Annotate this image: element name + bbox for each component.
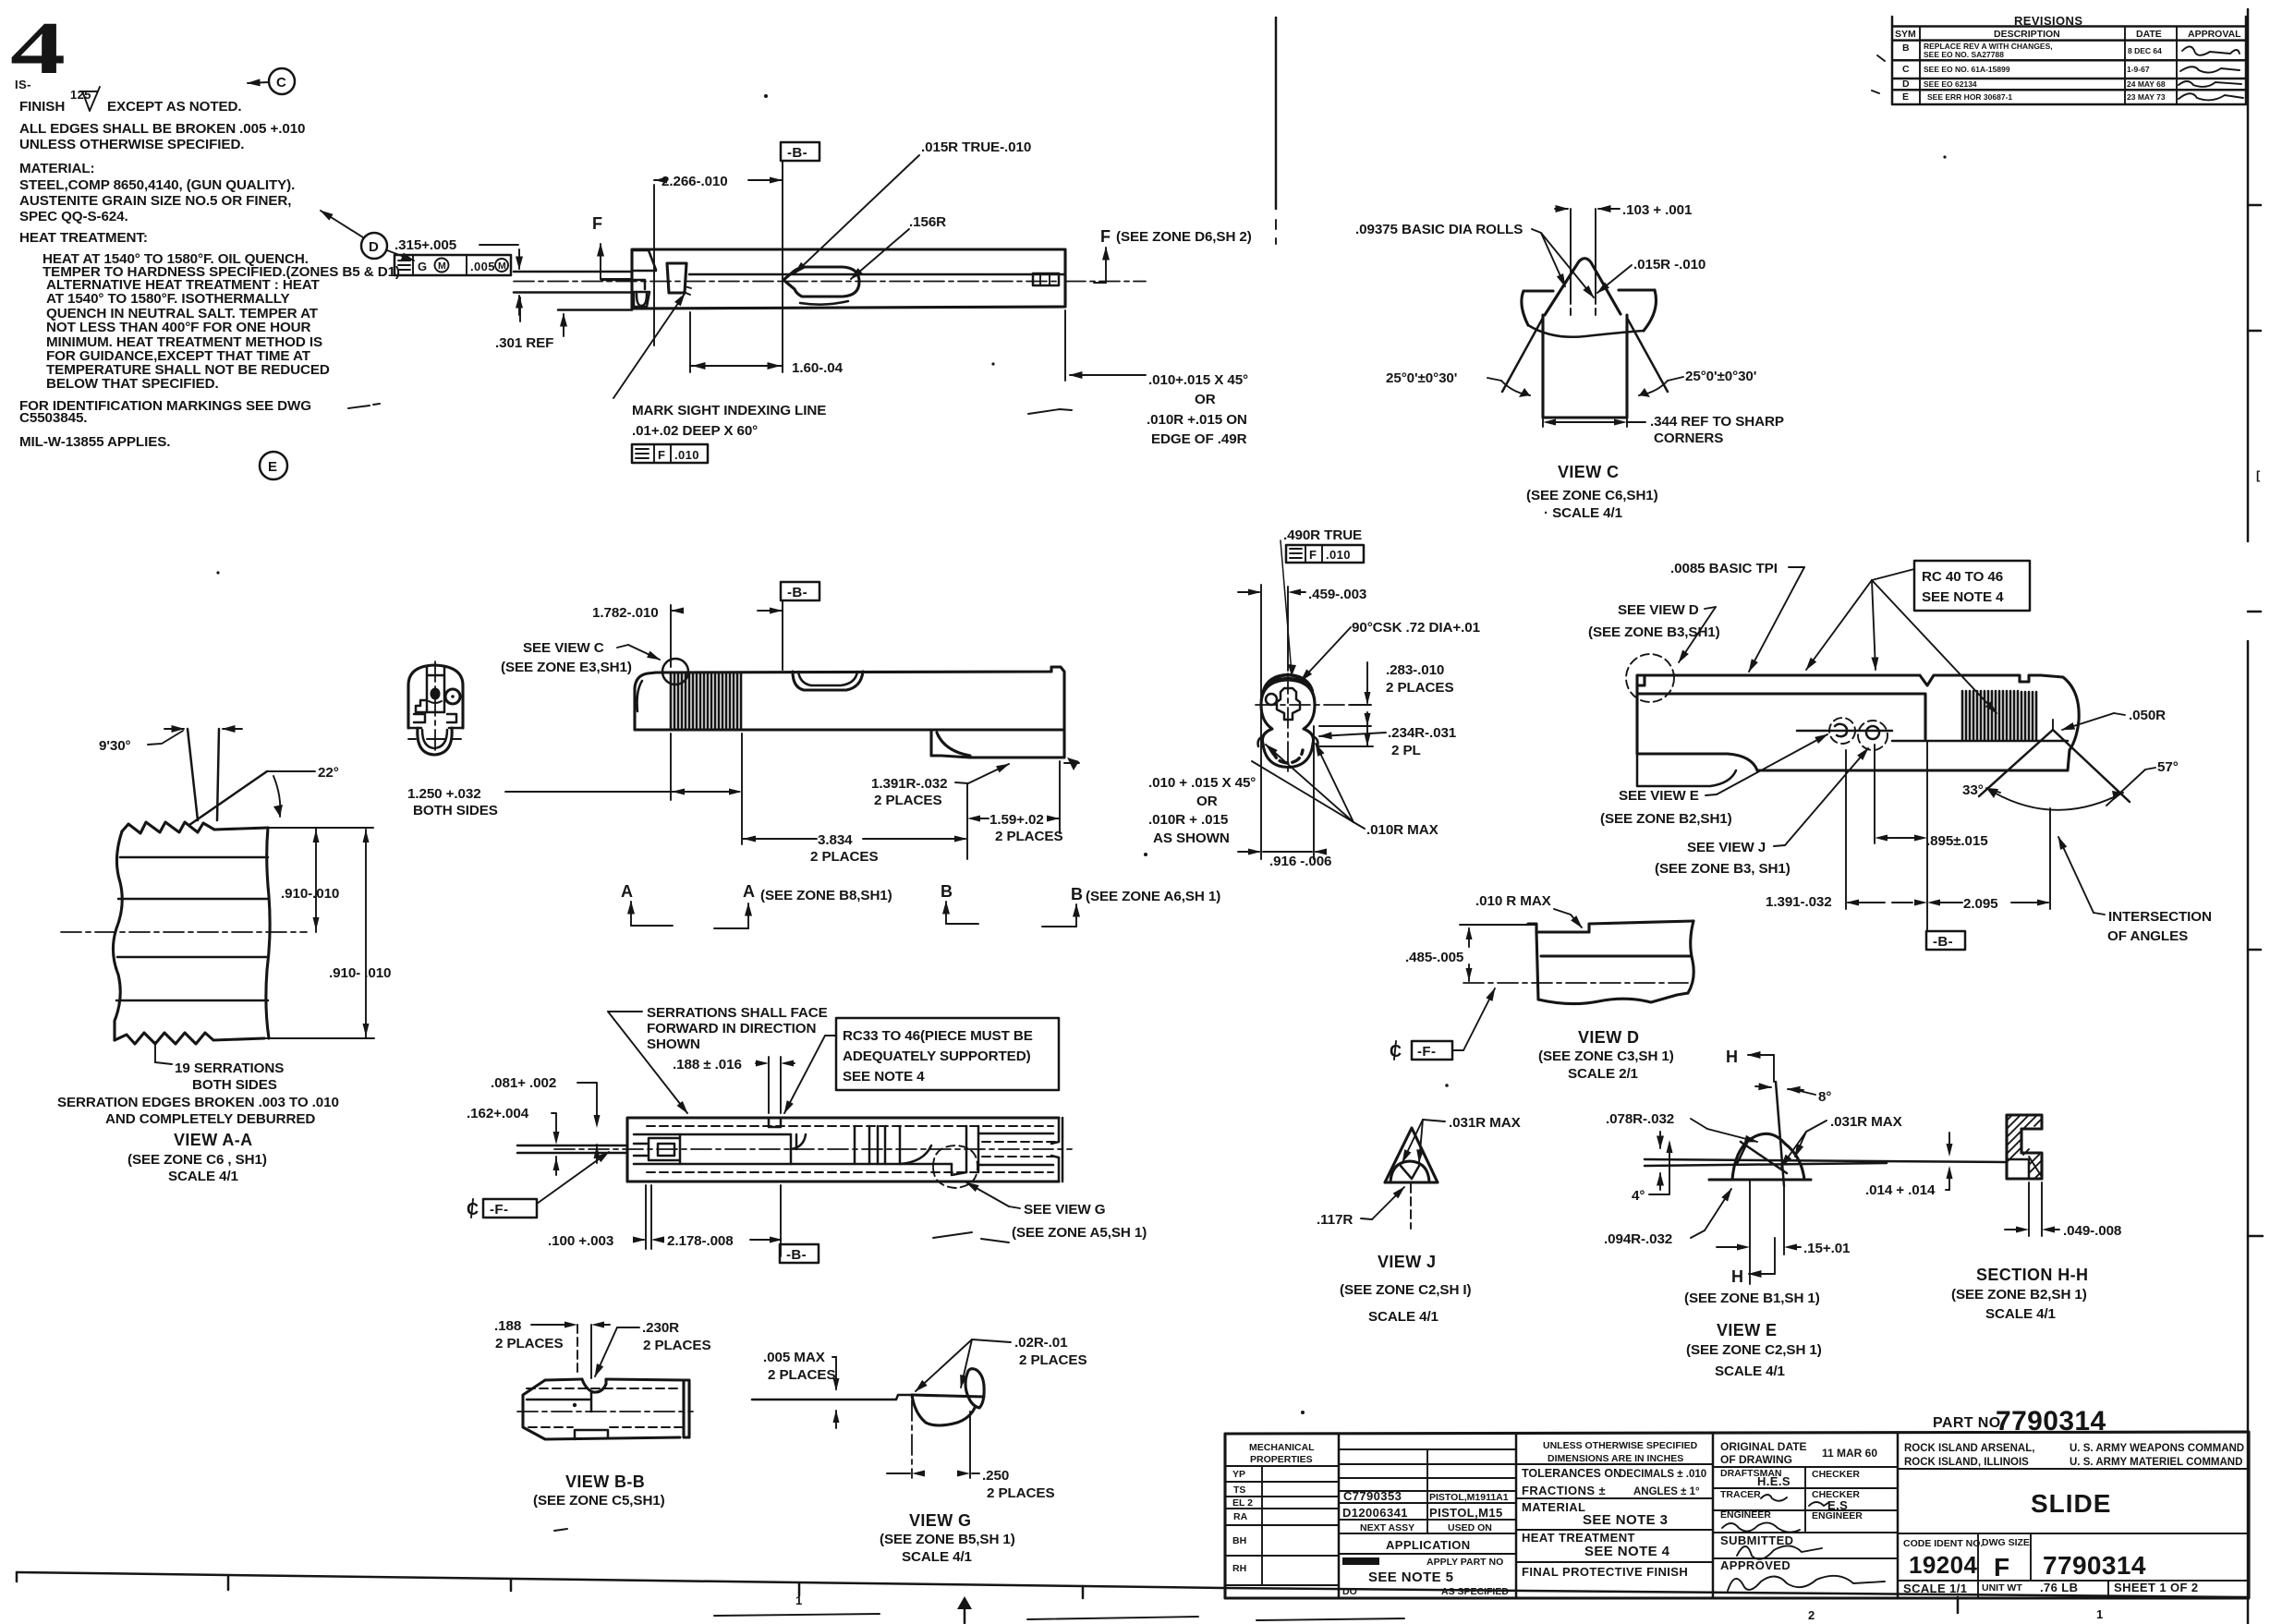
- svg-text:.156R: .156R: [909, 214, 946, 230]
- svg-text:.010R MAX: .010R MAX: [1366, 822, 1438, 838]
- view C roll dashed circles: [1571, 296, 1596, 315]
- svg-text:24 MAY 68: 24 MAY 68: [2127, 79, 2166, 89]
- svg-text:[: [: [2256, 468, 2261, 482]
- svg-text:25°0'±0°30': 25°0'±0°30': [1386, 370, 1457, 386]
- angle lines at rear: [1979, 730, 2130, 802]
- svg-text:.0085 BASIC TPI: .0085 BASIC TPI: [1670, 561, 1778, 576]
- svg-text:-F-: -F-: [490, 1202, 508, 1218]
- svg-text:CHECKER: CHECKER: [1812, 1469, 1860, 1480]
- view B-B serration notch: [582, 1379, 606, 1392]
- svg-text:19204: 19204: [1909, 1551, 1977, 1579]
- svg-text:.188 ± .016: .188 ± .016: [673, 1057, 742, 1073]
- svg-text:DATE: DATE: [2136, 29, 2162, 40]
- svg-text:.09375 BASIC DIA ROLLS: .09375 BASIC DIA ROLLS: [1355, 222, 1523, 237]
- sheet bottom border: [17, 1572, 2248, 1597]
- svg-text:VIEW C: VIEW C: [1558, 463, 1619, 481]
- svg-text:OF ANGLES: OF ANGLES: [2107, 928, 2188, 944]
- svg-text:ORIGINAL DATE: ORIGINAL DATE: [1720, 1440, 1807, 1453]
- svg-text:SEE VIEW J: SEE VIEW J: [1687, 840, 1766, 855]
- right view outline: [1637, 675, 2079, 770]
- svg-text:1.250 +.032: 1.250 +.032: [407, 786, 481, 802]
- dim .344 ref: [1543, 418, 1627, 427]
- svg-text:19 SERRATIONS: 19 SERRATIONS: [175, 1060, 284, 1076]
- svg-text:8 DEC 64: 8 DEC 64: [2128, 46, 2162, 55]
- section H-H hatching: [2007, 1115, 2042, 1179]
- svg-text:(SEE ZONE C3,SH 1): (SEE ZONE C3,SH 1): [1538, 1048, 1674, 1064]
- A-A dim extensions: [264, 828, 374, 1038]
- left stub lines long section: [517, 1145, 627, 1153]
- svg-text:SEE NOTE 5: SEE NOTE 5: [1368, 1569, 1453, 1585]
- svg-text:EXCEPT AS NOTED.: EXCEPT AS NOTED.: [107, 99, 242, 115]
- svg-text:(SEE ZONE B3, SH1): (SEE ZONE B3, SH1): [1655, 861, 1791, 877]
- svg-text:EL 2: EL 2: [1232, 1497, 1253, 1509]
- svg-text:OR: OR: [1196, 794, 1218, 809]
- svg-text:90°CSK .72 DIA+.01: 90°CSK .72 DIA+.01: [1352, 620, 1481, 636]
- svg-text:.315+.005: .315+.005: [395, 237, 457, 253]
- end view side tabs: [414, 714, 456, 722]
- A-A centerline: [61, 931, 307, 933]
- svg-text:PISTOL,M1911A1: PISTOL,M1911A1: [1429, 1492, 1509, 1503]
- svg-text:HEAT TREATMENT: HEAT TREATMENT: [1522, 1531, 1635, 1545]
- side view serration band: [671, 673, 741, 730]
- sight balloon circle on side view: [662, 659, 688, 685]
- right view rear serrations: [1962, 691, 2036, 739]
- svg-text:VIEW G: VIEW G: [909, 1511, 971, 1530]
- angle arc: [1986, 788, 2123, 810]
- balloon D: [361, 233, 387, 259]
- svg-text:(SEE ZONE A6,SH 1): (SEE ZONE A6,SH 1): [1086, 889, 1220, 904]
- dim 2.095: [1927, 741, 2048, 931]
- view C rectangle body: [1543, 315, 1627, 418]
- svg-text:B: B: [941, 882, 953, 901]
- svg-text:H: H: [1726, 1048, 1738, 1066]
- svg-text:-F-: -F-: [1417, 1044, 1436, 1060]
- svg-text:.01+.02 DEEP X 60°: .01+.02 DEEP X 60°: [632, 423, 758, 439]
- svg-text:1.391-.032: 1.391-.032: [1766, 894, 1832, 910]
- arsenal heading: [1898, 1468, 2249, 1470]
- svg-text:.459-.003: .459-.003: [1308, 587, 1366, 602]
- sight well: [667, 263, 686, 293]
- svg-text:-B-: -B-: [786, 1247, 807, 1263]
- A-A inner lines: [116, 857, 268, 1000]
- svg-text:SEE NOTE 4: SEE NOTE 4: [1584, 1544, 1670, 1559]
- svg-text:F: F: [1309, 548, 1317, 562]
- svg-text:SYM: SYM: [1895, 29, 1916, 40]
- A-A tooth profile wedge: [188, 729, 219, 820]
- view G hook outline: [912, 1395, 975, 1425]
- balloon D arrow to spec note: [321, 211, 363, 237]
- svg-text:CORNERS: CORNERS: [1654, 430, 1723, 446]
- svg-text:.910- .010: .910- .010: [329, 965, 391, 981]
- svg-text:SCALE 4/1: SCALE 4/1: [168, 1169, 239, 1184]
- svg-text:PISTOL,M15: PISTOL,M15: [1429, 1506, 1503, 1520]
- svg-text:SEE NOTE 4: SEE NOTE 4: [843, 1069, 925, 1085]
- svg-text:.031R MAX: .031R MAX: [1830, 1114, 1902, 1130]
- svg-text:.005 MAX: .005 MAX: [763, 1350, 825, 1365]
- svg-text:APPLICATION: APPLICATION: [1386, 1538, 1471, 1552]
- svg-text:H: H: [1731, 1267, 1743, 1286]
- svg-text:UNLESS OTHERWISE SPECIFIED.: UNLESS OTHERWISE SPECIFIED.: [19, 137, 244, 152]
- code ident row: [1898, 1533, 2249, 1598]
- balloon E: [260, 452, 287, 479]
- svg-text:.230R: .230R: [642, 1320, 679, 1336]
- svg-text:.02R-.01: .02R-.01: [1014, 1335, 1068, 1351]
- svg-text:ADEQUATELY SUPPORTED): ADEQUATELY SUPPORTED): [843, 1048, 1031, 1064]
- svg-text:M: M: [438, 261, 446, 272]
- keyhole outer crown arcs: [1263, 674, 1313, 691]
- feature frame F .010: [632, 444, 708, 463]
- svg-text:CODE IDENT NO.: CODE IDENT NO.: [1903, 1538, 1983, 1549]
- svg-text:BOTH SIDES: BOTH SIDES: [413, 803, 498, 818]
- svg-text:.76 LB: .76 LB: [2040, 1581, 2078, 1594]
- svg-text:PROPERTIES: PROPERTIES: [1250, 1454, 1313, 1465]
- svg-text:(SEE ZONE B2,SH 1): (SEE ZONE B2,SH 1): [1951, 1287, 2087, 1303]
- right view lower left block: [1637, 754, 1736, 786]
- muzzle notch: [601, 280, 645, 289]
- svg-text:.049-.008: .049-.008: [2063, 1223, 2121, 1239]
- svg-text:SECTION H-H: SECTION H-H: [1976, 1266, 2088, 1284]
- svg-text:ROCK ISLAND ARSENAL,: ROCK ISLAND ARSENAL,: [1904, 1443, 2034, 1454]
- svg-text:F: F: [592, 214, 602, 233]
- svg-text:11 MAR 60: 11 MAR 60: [1822, 1447, 1877, 1460]
- svg-text:33°: 33°: [1962, 782, 1984, 798]
- dim .250 view G: [911, 1400, 913, 1478]
- section H-H outline: [2007, 1115, 2042, 1179]
- svg-text:.162+.004: .162+.004: [467, 1106, 529, 1121]
- dim .049-.008: [2029, 1182, 2042, 1236]
- svg-text:SUBMITTED: SUBMITTED: [1720, 1533, 1793, 1547]
- RC33 box: [836, 1018, 1059, 1090]
- svg-text:25°0'±0°30': 25°0'±0°30': [1685, 369, 1756, 384]
- svg-text:.031R MAX: .031R MAX: [1449, 1115, 1521, 1131]
- svg-text:.895±.015: .895±.015: [1926, 833, 1988, 849]
- svg-text:APPLY PART NO: APPLY PART NO: [1426, 1557, 1503, 1568]
- side view outline: [635, 667, 1064, 757]
- long section right end: [1051, 1118, 1062, 1182]
- svg-text:.010: .010: [674, 448, 699, 462]
- svg-text:SCALE 4/1: SCALE 4/1: [1715, 1363, 1786, 1379]
- view E dashed circle: [1829, 718, 1855, 744]
- svg-text:SEE VIEW G: SEE VIEW G: [1024, 1202, 1105, 1218]
- sheet right border: [2247, 9, 2250, 1624]
- svg-text:.010R +.015 ON: .010R +.015 ON: [1147, 412, 1247, 428]
- svg-text:ROCK ISLAND, ILLINOIS: ROCK ISLAND, ILLINOIS: [1904, 1457, 2029, 1468]
- svg-text:.081+ .002: .081+ .002: [491, 1075, 556, 1091]
- svg-text:1.60-.04: 1.60-.04: [792, 360, 844, 376]
- svg-text:SCALE 4/1: SCALE 4/1: [902, 1549, 973, 1565]
- keyhole crown top outline: [1261, 675, 1315, 699]
- svg-text:OF DRAWING: OF DRAWING: [1720, 1453, 1792, 1466]
- svg-text:2: 2: [1808, 1608, 1815, 1622]
- svg-text:C: C: [276, 75, 286, 91]
- long section muzzle internals: [649, 1134, 680, 1164]
- svg-text:2 PL: 2 PL: [1391, 743, 1421, 758]
- end view sight channel: [427, 667, 444, 712]
- svg-text:DWG SIZE: DWG SIZE: [1982, 1537, 2030, 1548]
- svg-text:2.266-.010: 2.266-.010: [662, 174, 728, 189]
- svg-text:1.59+.02: 1.59+.02: [989, 812, 1044, 828]
- svg-text:MATERIAL:: MATERIAL:: [19, 161, 95, 176]
- svg-text:RA: RA: [1233, 1511, 1248, 1522]
- svg-text:ENGINEER: ENGINEER: [1720, 1509, 1771, 1521]
- muzzle lower tab: [634, 292, 649, 307]
- svg-text:2.178-.008: 2.178-.008: [667, 1233, 734, 1249]
- dim 2.266-.010: [653, 185, 655, 345]
- stray marks left of table: [1872, 55, 1885, 93]
- svg-text:(SEE ZONE C5,SH1): (SEE ZONE C5,SH1): [533, 1493, 665, 1509]
- svg-text:F: F: [1994, 1553, 2010, 1582]
- long section top serration step: [769, 1118, 781, 1127]
- svg-text:.014 + .014: .014 + .014: [1865, 1182, 1936, 1198]
- svg-text:2 PLACES: 2 PLACES: [1386, 680, 1453, 696]
- svg-text:1: 1: [2096, 1607, 2104, 1621]
- svg-text:-B-: -B-: [1933, 934, 1953, 950]
- A-A block bottom serrations: [115, 1033, 264, 1044]
- svg-text:DIMENSIONS ARE IN INCHES: DIMENSIONS ARE IN INCHES: [1548, 1453, 1683, 1464]
- svg-text:(SEE ZONE B1,SH 1): (SEE ZONE B1,SH 1): [1684, 1291, 1820, 1306]
- svg-text:.010 + .015 X 45°: .010 + .015 X 45°: [1148, 775, 1256, 791]
- svg-text:F: F: [658, 448, 665, 462]
- svg-text:DO: DO: [1342, 1586, 1357, 1597]
- long section inner rails: [647, 1126, 1053, 1172]
- svg-text:ENGINEER: ENGINEER: [1812, 1510, 1863, 1521]
- svg-text:VIEW J: VIEW J: [1378, 1253, 1436, 1271]
- svg-text:.916 -.006: .916 -.006: [1269, 854, 1331, 869]
- A-A dim lower .910: [365, 830, 367, 1038]
- svg-text:1.782-.010: 1.782-.010: [592, 605, 659, 621]
- svg-text:.010+.015 X 45°: .010+.015 X 45°: [1148, 372, 1248, 388]
- recoil plug U: [637, 294, 647, 306]
- view E ledge lines: [1645, 1159, 2005, 1166]
- svg-text:9'30°: 9'30°: [99, 738, 131, 754]
- keyhole side bumps: [1258, 736, 1318, 746]
- stray dash mark: [348, 404, 380, 408]
- datum target frame G: [395, 255, 511, 275]
- svg-text:SCALE 1/1: SCALE 1/1: [1903, 1582, 1967, 1595]
- svg-text:2 PLACES: 2 PLACES: [768, 1367, 835, 1383]
- stray dashes: [933, 1232, 1009, 1242]
- svg-text:G: G: [418, 260, 428, 273]
- centerline top view: [514, 281, 1061, 283]
- callout mark sight indexing line: [613, 294, 685, 398]
- A-A block right edge: [266, 828, 270, 1038]
- datum flag B long section: [780, 1244, 819, 1263]
- rail line through circles: [1797, 730, 1892, 733]
- svg-text:APPROVAL: APPROVAL: [2188, 29, 2241, 40]
- svg-text:(SEE ZONE C6 , SH1): (SEE ZONE C6 , SH1): [127, 1152, 267, 1168]
- long section body outline: [627, 1118, 1059, 1182]
- svg-text:MARK SIGHT INDEXING LINE: MARK SIGHT INDEXING LINE: [632, 403, 826, 418]
- end view outline: [408, 665, 463, 728]
- keyhole centerlines: [1256, 704, 1352, 706]
- svg-text:SCALE 2/1: SCALE 2/1: [1568, 1066, 1639, 1082]
- svg-text:SHEET 1 OF 2: SHEET 1 OF 2: [2114, 1581, 2199, 1594]
- view E inner chords: [1737, 1139, 1787, 1173]
- view D dashed circle: [1626, 654, 1674, 702]
- svg-text:FINISH: FINISH: [19, 99, 65, 115]
- svg-text:MECHANICAL: MECHANICAL: [1249, 1442, 1315, 1453]
- date and signature box: [1713, 1467, 1898, 1558]
- svg-text:ANGLES ± 1°: ANGLES ± 1°: [1633, 1486, 1700, 1497]
- view B-B dashed lines: [527, 1388, 682, 1427]
- svg-text:.015R -.010: .015R -.010: [1633, 257, 1706, 273]
- svg-text:SERRATION EDGES BROKEN .003 TO: SERRATION EDGES BROKEN .003 TO .010: [57, 1095, 339, 1110]
- datum flag B (right view): [1926, 931, 1965, 950]
- svg-text:.117R: .117R: [1317, 1212, 1353, 1228]
- svg-text:SHOWN: SHOWN: [647, 1036, 700, 1052]
- A-A block left break edge: [113, 831, 122, 1040]
- svg-text:SEE NOTE 4: SEE NOTE 4: [1922, 589, 2004, 605]
- svg-text:(SEE ZONE B2,SH1): (SEE ZONE B2,SH1): [1600, 811, 1732, 827]
- svg-text:PART NO.: PART NO.: [1933, 1415, 2005, 1431]
- svg-text:VIEW A-A: VIEW A-A: [174, 1131, 253, 1149]
- svg-text:TRACER: TRACER: [1720, 1489, 1761, 1500]
- dim 1.59+.02: [972, 818, 1060, 819]
- title block main verticals: [1339, 1433, 1898, 1598]
- svg-text:(SEE ZONE D6,SH 2): (SEE ZONE D6,SH 2): [1116, 229, 1252, 245]
- rear end rect detail: [1033, 273, 1059, 285]
- top flat inner line: [689, 273, 1065, 276]
- finish symbol: [80, 87, 100, 111]
- keyhole inner cross: [1277, 688, 1300, 720]
- svg-text:(SEE ZONE B3,SH1): (SEE ZONE B3,SH1): [1588, 624, 1720, 640]
- svg-text:(SEE ZONE B8,SH1): (SEE ZONE B8,SH1): [760, 888, 892, 903]
- svg-text:E: E: [1902, 91, 1909, 103]
- scan speckles: [764, 94, 768, 98]
- svg-text:UNIT WT: UNIT WT: [1982, 1582, 2022, 1594]
- left projection stub lines: [514, 272, 632, 310]
- tolerances box: [1516, 1464, 1713, 1562]
- chamfer callout right: [1064, 310, 1066, 381]
- datum flag B (top view): [781, 142, 819, 161]
- svg-text:FRACTIONS ±: FRACTIONS ±: [1522, 1484, 1606, 1497]
- svg-text:D: D: [369, 239, 379, 255]
- dim 2.178-.008: [750, 1239, 781, 1241]
- dim .15+.01: [1750, 1180, 1784, 1284]
- view C break curve: [1528, 325, 1644, 337]
- svg-text:.234R-.031: .234R-.031: [1388, 725, 1457, 741]
- bottom edge artifact dashes: [714, 1614, 1404, 1620]
- view J dashed circle: [1858, 721, 1888, 750]
- view C right ear: [1619, 290, 1657, 331]
- view G tongue line: [752, 1395, 912, 1400]
- svg-text:C: C: [1902, 64, 1910, 75]
- svg-text:SEE VIEW D: SEE VIEW D: [1618, 602, 1699, 618]
- view E hump outline: [1709, 1133, 1811, 1180]
- end view horseshoe: [418, 728, 452, 755]
- svg-text:INTERSECTION: INTERSECTION: [2108, 909, 2212, 925]
- svg-text:NOT LESS THAN 400°F FOR ONE HO: NOT LESS THAN 400°F FOR ONE HOUR: [46, 320, 311, 335]
- svg-text:1: 1: [795, 1594, 803, 1607]
- application box rows: [1339, 1449, 1516, 1554]
- svg-text:.301 REF: .301 REF: [495, 335, 553, 351]
- svg-text:.188: .188: [494, 1318, 521, 1334]
- datum flag B (side view): [781, 582, 819, 600]
- svg-text:.15+.01: .15+.01: [1803, 1241, 1851, 1256]
- svg-text:USED ON: USED ON: [1448, 1522, 1492, 1533]
- svg-text:VIEW D: VIEW D: [1578, 1028, 1639, 1047]
- svg-text:YP: YP: [1232, 1469, 1245, 1480]
- svg-text:4°: 4°: [1632, 1188, 1645, 1204]
- svg-text:C7790353: C7790353: [1343, 1489, 1402, 1503]
- end view centerlines: [434, 661, 436, 750]
- svg-text:2 PLACES: 2 PLACES: [643, 1338, 710, 1353]
- svg-text:TOLERANCES ON: TOLERANCES ON: [1522, 1467, 1621, 1480]
- svg-text:APPROVED: APPROVED: [1720, 1558, 1791, 1572]
- svg-text:-B-: -B-: [787, 145, 807, 161]
- dim 3.834: [743, 838, 965, 840]
- dim 1.60-.04: [689, 312, 691, 372]
- svg-text:SEE NOTE 3: SEE NOTE 3: [1583, 1512, 1668, 1528]
- svg-text:B: B: [1902, 42, 1910, 54]
- top view outline: [632, 249, 1065, 309]
- view D outline: [1528, 921, 1693, 932]
- right view bottom flat line: [1892, 740, 2068, 743]
- svg-text:.283-.010: .283-.010: [1386, 662, 1444, 678]
- view E section cut line tilted: [1776, 1082, 1784, 1186]
- svg-text:.050R: .050R: [2129, 708, 2166, 723]
- svg-text:23 MAY 73: 23 MAY 73: [2127, 92, 2166, 102]
- svg-text:(SEE ZONE C2,SH I): (SEE ZONE C2,SH I): [1340, 1282, 1472, 1298]
- callout 19 serrations: [155, 1042, 172, 1064]
- svg-text:.250: .250: [982, 1468, 1009, 1484]
- view C thread tooth: [1545, 259, 1621, 315]
- long section centerline: [554, 1148, 1072, 1150]
- svg-text:U. S. ARMY MATERIEL COMMAND: U. S. ARMY MATERIEL COMMAND: [2070, 1457, 2242, 1468]
- svg-text:U. S. ARMY WEAPONS COMMAND: U. S. ARMY WEAPONS COMMAND: [2070, 1443, 2244, 1454]
- svg-text:(SEE ZONE A5,SH 1): (SEE ZONE A5,SH 1): [1012, 1225, 1147, 1241]
- svg-text:SERRATIONS SHALL FACE: SERRATIONS SHALL FACE: [647, 1005, 828, 1021]
- see view G dashed circle: [933, 1145, 977, 1188]
- svg-text:SPEC QQ-S-624.: SPEC QQ-S-624.: [19, 209, 128, 224]
- end view bottom shelf: [408, 727, 463, 730]
- svg-text:(SEE ZONE B5,SH 1): (SEE ZONE B5,SH 1): [880, 1532, 1015, 1547]
- view J outline: [1385, 1128, 1438, 1182]
- keyhole upper circle: [1261, 680, 1315, 768]
- svg-text:TS: TS: [1233, 1485, 1245, 1496]
- svg-text:2 PLACES: 2 PLACES: [495, 1336, 563, 1351]
- svg-text:NEXT ASSY: NEXT ASSY: [1360, 1522, 1414, 1533]
- end view side circle: [445, 689, 460, 704]
- bottom border ticks: [17, 1572, 1958, 1613]
- svg-text:3.834: 3.834: [818, 832, 853, 848]
- svg-text:VIEW B-B: VIEW B-B: [565, 1473, 645, 1491]
- svg-text:STEEL,COMP 8650,4140, (GUN QUA: STEEL,COMP 8650,4140, (GUN QUALITY).: [19, 177, 295, 193]
- svg-text:.103 + .001: .103 + .001: [1622, 202, 1693, 218]
- svg-text:.344 REF TO SHARP: .344 REF TO SHARP: [1650, 414, 1784, 430]
- long section breech area: [791, 1134, 806, 1164]
- svg-text:BOTH SIDES: BOTH SIDES: [192, 1077, 277, 1093]
- svg-text:.485-.005: .485-.005: [1405, 950, 1464, 965]
- view C left ear: [1522, 291, 1553, 325]
- bottom fold arrow: [957, 1596, 972, 1609]
- svg-text:DESCRIPTION: DESCRIPTION: [1994, 29, 2060, 40]
- svg-text:FINAL PROTECTIVE FINISH: FINAL PROTECTIVE FINISH: [1522, 1565, 1688, 1579]
- svg-text:.094R-.032: .094R-.032: [1604, 1231, 1672, 1247]
- svg-text:2.095: 2.095: [1963, 896, 1998, 912]
- svg-text:E: E: [268, 459, 277, 475]
- svg-text:BELOW THAT SPECIFIED.: BELOW THAT SPECIFIED.: [46, 376, 219, 392]
- svg-text:SCALE 4/1: SCALE 4/1: [1985, 1306, 2057, 1322]
- end view front sight dot: [431, 688, 441, 700]
- svg-text:BH: BH: [1232, 1535, 1246, 1546]
- sheet border zone ticks right: [2248, 205, 2263, 1236]
- svg-text:2 PLACES: 2 PLACES: [987, 1485, 1054, 1501]
- title block outer frame: [1225, 1432, 2249, 1598]
- svg-text:IS-: IS-: [15, 78, 31, 91]
- muzzle left tab top: [632, 250, 656, 271]
- svg-text:8°: 8°: [1818, 1089, 1831, 1105]
